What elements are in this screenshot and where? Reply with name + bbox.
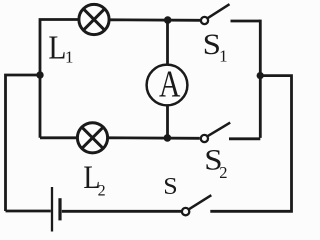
svg-text:2: 2	[219, 163, 227, 182]
svg-text:1: 1	[219, 46, 228, 65]
svg-text:A: A	[159, 64, 181, 105]
svg-text:1: 1	[65, 48, 74, 67]
svg-text:2: 2	[98, 183, 106, 200]
svg-text:S: S	[163, 174, 177, 200]
svg-text:L: L	[48, 29, 66, 66]
